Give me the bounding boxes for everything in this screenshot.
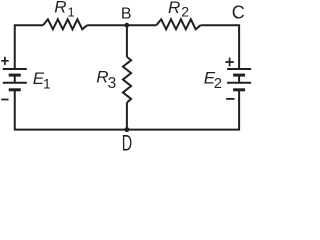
wire: left rail upper + top-left corner + top rail to R1 <box>15 25 43 68</box>
resistor R1 <box>43 19 87 29</box>
svg-text:B: B <box>121 6 132 23</box>
wire: E1 inter-cell stub <box>14 75 16 82</box>
minus sign of E2 <box>226 98 234 100</box>
wire: middle branch from R3 down to node D <box>126 103 128 130</box>
battery E1 long plate (lower) <box>3 82 27 84</box>
node B junction dot <box>125 23 130 28</box>
battery E1 short plate (upper) <box>9 74 21 77</box>
svg-text:1: 1 <box>68 4 75 19</box>
wire: E2 inter-cell stub <box>238 75 240 82</box>
wire: left rail lower + bottom rail + right rail lower <box>15 90 239 130</box>
plus sign of E1 <box>1 57 9 65</box>
svg-text:C: C <box>232 3 245 23</box>
wire: top rail R2 to corner C + right rail upper <box>201 25 240 68</box>
svg-text:R: R <box>54 0 66 17</box>
svg-text:D: D <box>122 131 132 151</box>
battery E1 long plate (top) <box>3 68 27 70</box>
plus sign of E2 <box>225 58 233 67</box>
svg-text:2: 2 <box>181 4 189 20</box>
svg-text:R: R <box>168 0 180 17</box>
resistor R3 <box>123 57 131 103</box>
resistor R2 <box>156 19 200 29</box>
battery E2 short plate (bottom) <box>233 88 245 91</box>
node D junction dot <box>124 127 129 132</box>
battery E2 long plate (top) <box>227 68 251 70</box>
svg-text:1: 1 <box>43 76 51 92</box>
wire: top rail between R1 and R2 (through node B) <box>87 24 156 26</box>
battery E2 long plate (lower) <box>227 82 251 84</box>
battery E2 short plate (upper) <box>233 74 245 77</box>
svg-text:2: 2 <box>214 76 222 92</box>
minus sign of E1 <box>1 99 8 101</box>
wire: middle branch from node B down to R3 <box>126 25 128 57</box>
battery E1 short plate (bottom) <box>9 88 21 91</box>
svg-text:3: 3 <box>108 75 117 92</box>
